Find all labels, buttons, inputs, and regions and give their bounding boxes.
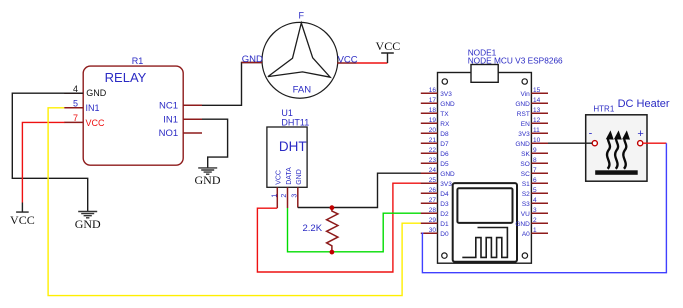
svg-text:A0: A0 [522, 231, 530, 238]
relay R1 [83, 56, 183, 165]
NODE1 pin 4 S3 [522, 197, 548, 208]
DHT pin 3 GND stub [292, 187, 299, 207]
svg-text:3V3: 3V3 [518, 131, 530, 138]
wire DHT GND to NODE1 GND pin24 (black) [298, 173, 424, 207]
NODE1 pin 15 Vin [521, 87, 548, 98]
svg-text:D7: D7 [440, 141, 449, 148]
svg-text:+: + [637, 128, 643, 140]
svg-text:-: - [589, 128, 593, 140]
svg-text:NODE MCU V3 ESP8266: NODE MCU V3 ESP8266 [468, 56, 563, 66]
svg-text:GND: GND [515, 141, 530, 148]
svg-text:17: 17 [429, 97, 437, 104]
NODE1 pin 27 D3 [421, 197, 449, 208]
wire DHT DATA to NODE1 D2 pin28 (green) [288, 208, 424, 252]
NODE1 pin 26 D4 [421, 187, 449, 198]
svg-text:Vin: Vin [521, 91, 531, 98]
NodeMCU NODE1 body [438, 48, 564, 264]
svg-text:HTR1: HTR1 [593, 104, 614, 113]
svg-text:D8: D8 [440, 131, 449, 138]
NODE1 pin 9 SK [521, 147, 548, 158]
svg-text:30: 30 [429, 227, 437, 234]
NODE1 pin 19 RX [421, 117, 450, 128]
NODE1 pin 3 VU [521, 207, 548, 218]
svg-text:VCC: VCC [276, 170, 283, 185]
svg-text:IN1: IN1 [163, 114, 178, 125]
NODE1 pin 18 TX [421, 107, 449, 118]
svg-text:18: 18 [429, 107, 437, 114]
wire relay IN1-right to ground (black) [202, 119, 228, 168]
wire heater + to NODE1 D0 pin30 (blue) [422, 143, 666, 273]
svg-text:D2: D2 [440, 211, 449, 218]
svg-text:F: F [299, 11, 305, 21]
svg-text:7: 7 [533, 167, 537, 174]
svg-text:13: 13 [533, 107, 541, 114]
svg-text:20: 20 [429, 127, 437, 134]
svg-text:GND: GND [242, 54, 263, 65]
NODE1 pin 12 EN [521, 117, 548, 128]
svg-text:D3: D3 [440, 201, 449, 208]
svg-text:7: 7 [73, 113, 78, 123]
wire relay NC1 to fan GND (black) [202, 63, 262, 106]
relay pin IN1 (right) [163, 114, 202, 125]
junction node top of resistor [330, 205, 335, 210]
resistor 2.2K [303, 208, 338, 252]
wire DHT VCC to NODE1 3V3 pin25 (red) [257, 183, 423, 272]
svg-text:S1: S1 [522, 181, 530, 188]
wire heater + stub (red) [643, 142, 667, 144]
NODE1 pin 28 D2 [421, 207, 449, 218]
NODE1 pin 17 GND [421, 97, 455, 108]
svg-text:NC1: NC1 [159, 101, 178, 112]
svg-text:8: 8 [533, 157, 537, 164]
svg-text:29: 29 [429, 217, 437, 224]
relay pin NO1 [159, 128, 202, 139]
svg-text:12: 12 [533, 117, 541, 124]
NODE1 pin 14 GND [515, 97, 548, 108]
svg-text:D5: D5 [440, 161, 449, 168]
heater terminal - [592, 141, 597, 146]
svg-text:2: 2 [281, 194, 288, 198]
svg-text:3: 3 [533, 207, 537, 214]
NODE1 pin 25 3V3 [421, 177, 452, 188]
DHT11 sensor U1 [267, 108, 309, 187]
svg-text:27: 27 [429, 197, 437, 204]
svg-text:D4: D4 [440, 191, 449, 198]
svg-text:VU: VU [521, 211, 530, 218]
wire relay VCC pin7 to VCC terminal (red) [22, 122, 64, 202]
svg-text:FAN: FAN [293, 84, 312, 95]
svg-text:R1: R1 [132, 56, 144, 66]
NODE1 pin 6 S1 [522, 177, 548, 188]
svg-text:16: 16 [429, 87, 437, 94]
svg-text:26: 26 [429, 187, 437, 194]
NODE1 pin 22 D6 [421, 147, 449, 158]
svg-text:D1: D1 [440, 221, 449, 228]
svg-text:23: 23 [429, 157, 437, 164]
svg-text:3: 3 [292, 194, 299, 198]
ground symbol bottom-left [75, 212, 101, 231]
svg-text:11: 11 [533, 127, 540, 134]
svg-text:14: 14 [533, 97, 541, 104]
svg-text:NO1: NO1 [159, 128, 179, 139]
wire NODE1 GND pin10 to heater - (black) [548, 142, 592, 144]
svg-text:D6: D6 [440, 151, 449, 158]
svg-text:RX: RX [440, 121, 450, 128]
svg-text:VCC: VCC [86, 118, 106, 128]
svg-text:DATA: DATA [286, 167, 293, 185]
svg-text:2.2K: 2.2K [303, 223, 323, 234]
svg-text:3V3: 3V3 [440, 181, 452, 188]
svg-text:DC Heater: DC Heater [618, 98, 670, 110]
svg-text:GND: GND [296, 169, 303, 185]
svg-text:6: 6 [533, 177, 537, 184]
NODE1 pin 20 D8 [421, 127, 449, 138]
svg-text:GND: GND [515, 221, 530, 228]
svg-text:GND: GND [75, 217, 101, 231]
VCC power terminal top [376, 39, 401, 63]
NODE1 pin 23 D5 [421, 157, 449, 168]
NODE1 pin 21 D7 [421, 137, 449, 148]
junction node bottom of resistor [330, 250, 335, 255]
relay pin 4 GND [64, 84, 107, 98]
VCC power terminal bottom-left [10, 203, 35, 227]
NODE1 pin 13 RST [517, 107, 548, 118]
wire fan VCC to VCC terminal (red) [357, 62, 388, 64]
svg-text:GND: GND [86, 88, 107, 98]
svg-text:SC: SC [521, 171, 530, 178]
svg-text:1: 1 [533, 227, 537, 234]
NODE1 pin 10 GND [515, 137, 548, 148]
NODE1 pin 1 A0 [522, 227, 548, 238]
svg-text:19: 19 [429, 117, 437, 124]
svg-text:D0: D0 [440, 231, 449, 238]
svg-text:S2: S2 [522, 191, 530, 198]
svg-text:1: 1 [271, 194, 278, 198]
svg-text:VCC: VCC [376, 39, 401, 53]
DHT pin 1 VCC stub [271, 187, 278, 208]
svg-text:RELAY: RELAY [105, 70, 147, 85]
relay pin NC1 [159, 101, 202, 112]
fan F [262, 11, 338, 99]
svg-text:3V3: 3V3 [440, 91, 452, 98]
fan pin GND stub [242, 54, 264, 65]
svg-text:2: 2 [533, 217, 537, 224]
DC heater HTR1 [586, 98, 670, 181]
svg-text:28: 28 [429, 207, 437, 214]
svg-text:GND: GND [195, 173, 221, 187]
NODE1 pin 24 GND [421, 167, 455, 178]
svg-text:VCC: VCC [10, 213, 35, 227]
svg-text:9: 9 [533, 147, 537, 154]
NODE1 pin 29 D1 [421, 217, 449, 228]
svg-text:5: 5 [73, 99, 78, 109]
fan pin VCC stub [337, 54, 358, 65]
svg-text:SO: SO [520, 161, 529, 168]
ground symbol right of relay [195, 168, 221, 187]
svg-text:EN: EN [521, 121, 530, 128]
NODE1 pin 5 S2 [522, 187, 548, 198]
DHT pin 2 DATA stub [281, 187, 288, 208]
svg-text:S3: S3 [522, 201, 530, 208]
relay pin 7 VCC [64, 113, 105, 128]
svg-text:SK: SK [521, 151, 530, 158]
svg-text:24: 24 [429, 167, 437, 174]
NODE1 pin 8 SO [520, 157, 548, 168]
svg-text:4: 4 [533, 197, 537, 204]
svg-text:RST: RST [517, 111, 530, 118]
NODE1 pin 30 D0 [421, 227, 449, 238]
NODE1 pin 11 3V3 [518, 127, 548, 138]
svg-text:10: 10 [533, 137, 541, 144]
svg-text:GND: GND [515, 101, 530, 108]
svg-text:21: 21 [429, 137, 437, 144]
svg-text:22: 22 [429, 147, 437, 154]
svg-text:5: 5 [533, 187, 537, 194]
svg-text:DHT: DHT [279, 139, 307, 154]
svg-text:IN1: IN1 [86, 103, 100, 113]
wire relay GND pin4 to ground (black) [12, 93, 87, 211]
NODE1 pin 7 SC [521, 167, 548, 178]
NODE1 pin 2 GND [515, 217, 548, 228]
svg-text:GND: GND [440, 171, 455, 178]
svg-text:DHT11: DHT11 [281, 118, 309, 128]
svg-text:TX: TX [440, 111, 449, 118]
svg-text:25: 25 [429, 177, 437, 184]
relay pin 5 IN1 [64, 99, 99, 113]
svg-text:15: 15 [533, 87, 541, 94]
svg-text:GND: GND [440, 101, 455, 108]
svg-text:U1: U1 [281, 108, 293, 118]
NODE1 pin 16 3V3 [421, 87, 452, 98]
heater terminal + [638, 141, 643, 146]
svg-text:VCC: VCC [338, 54, 358, 65]
wire relay IN1 pin5 to NODE1 D1 (yellow) [48, 108, 423, 296]
